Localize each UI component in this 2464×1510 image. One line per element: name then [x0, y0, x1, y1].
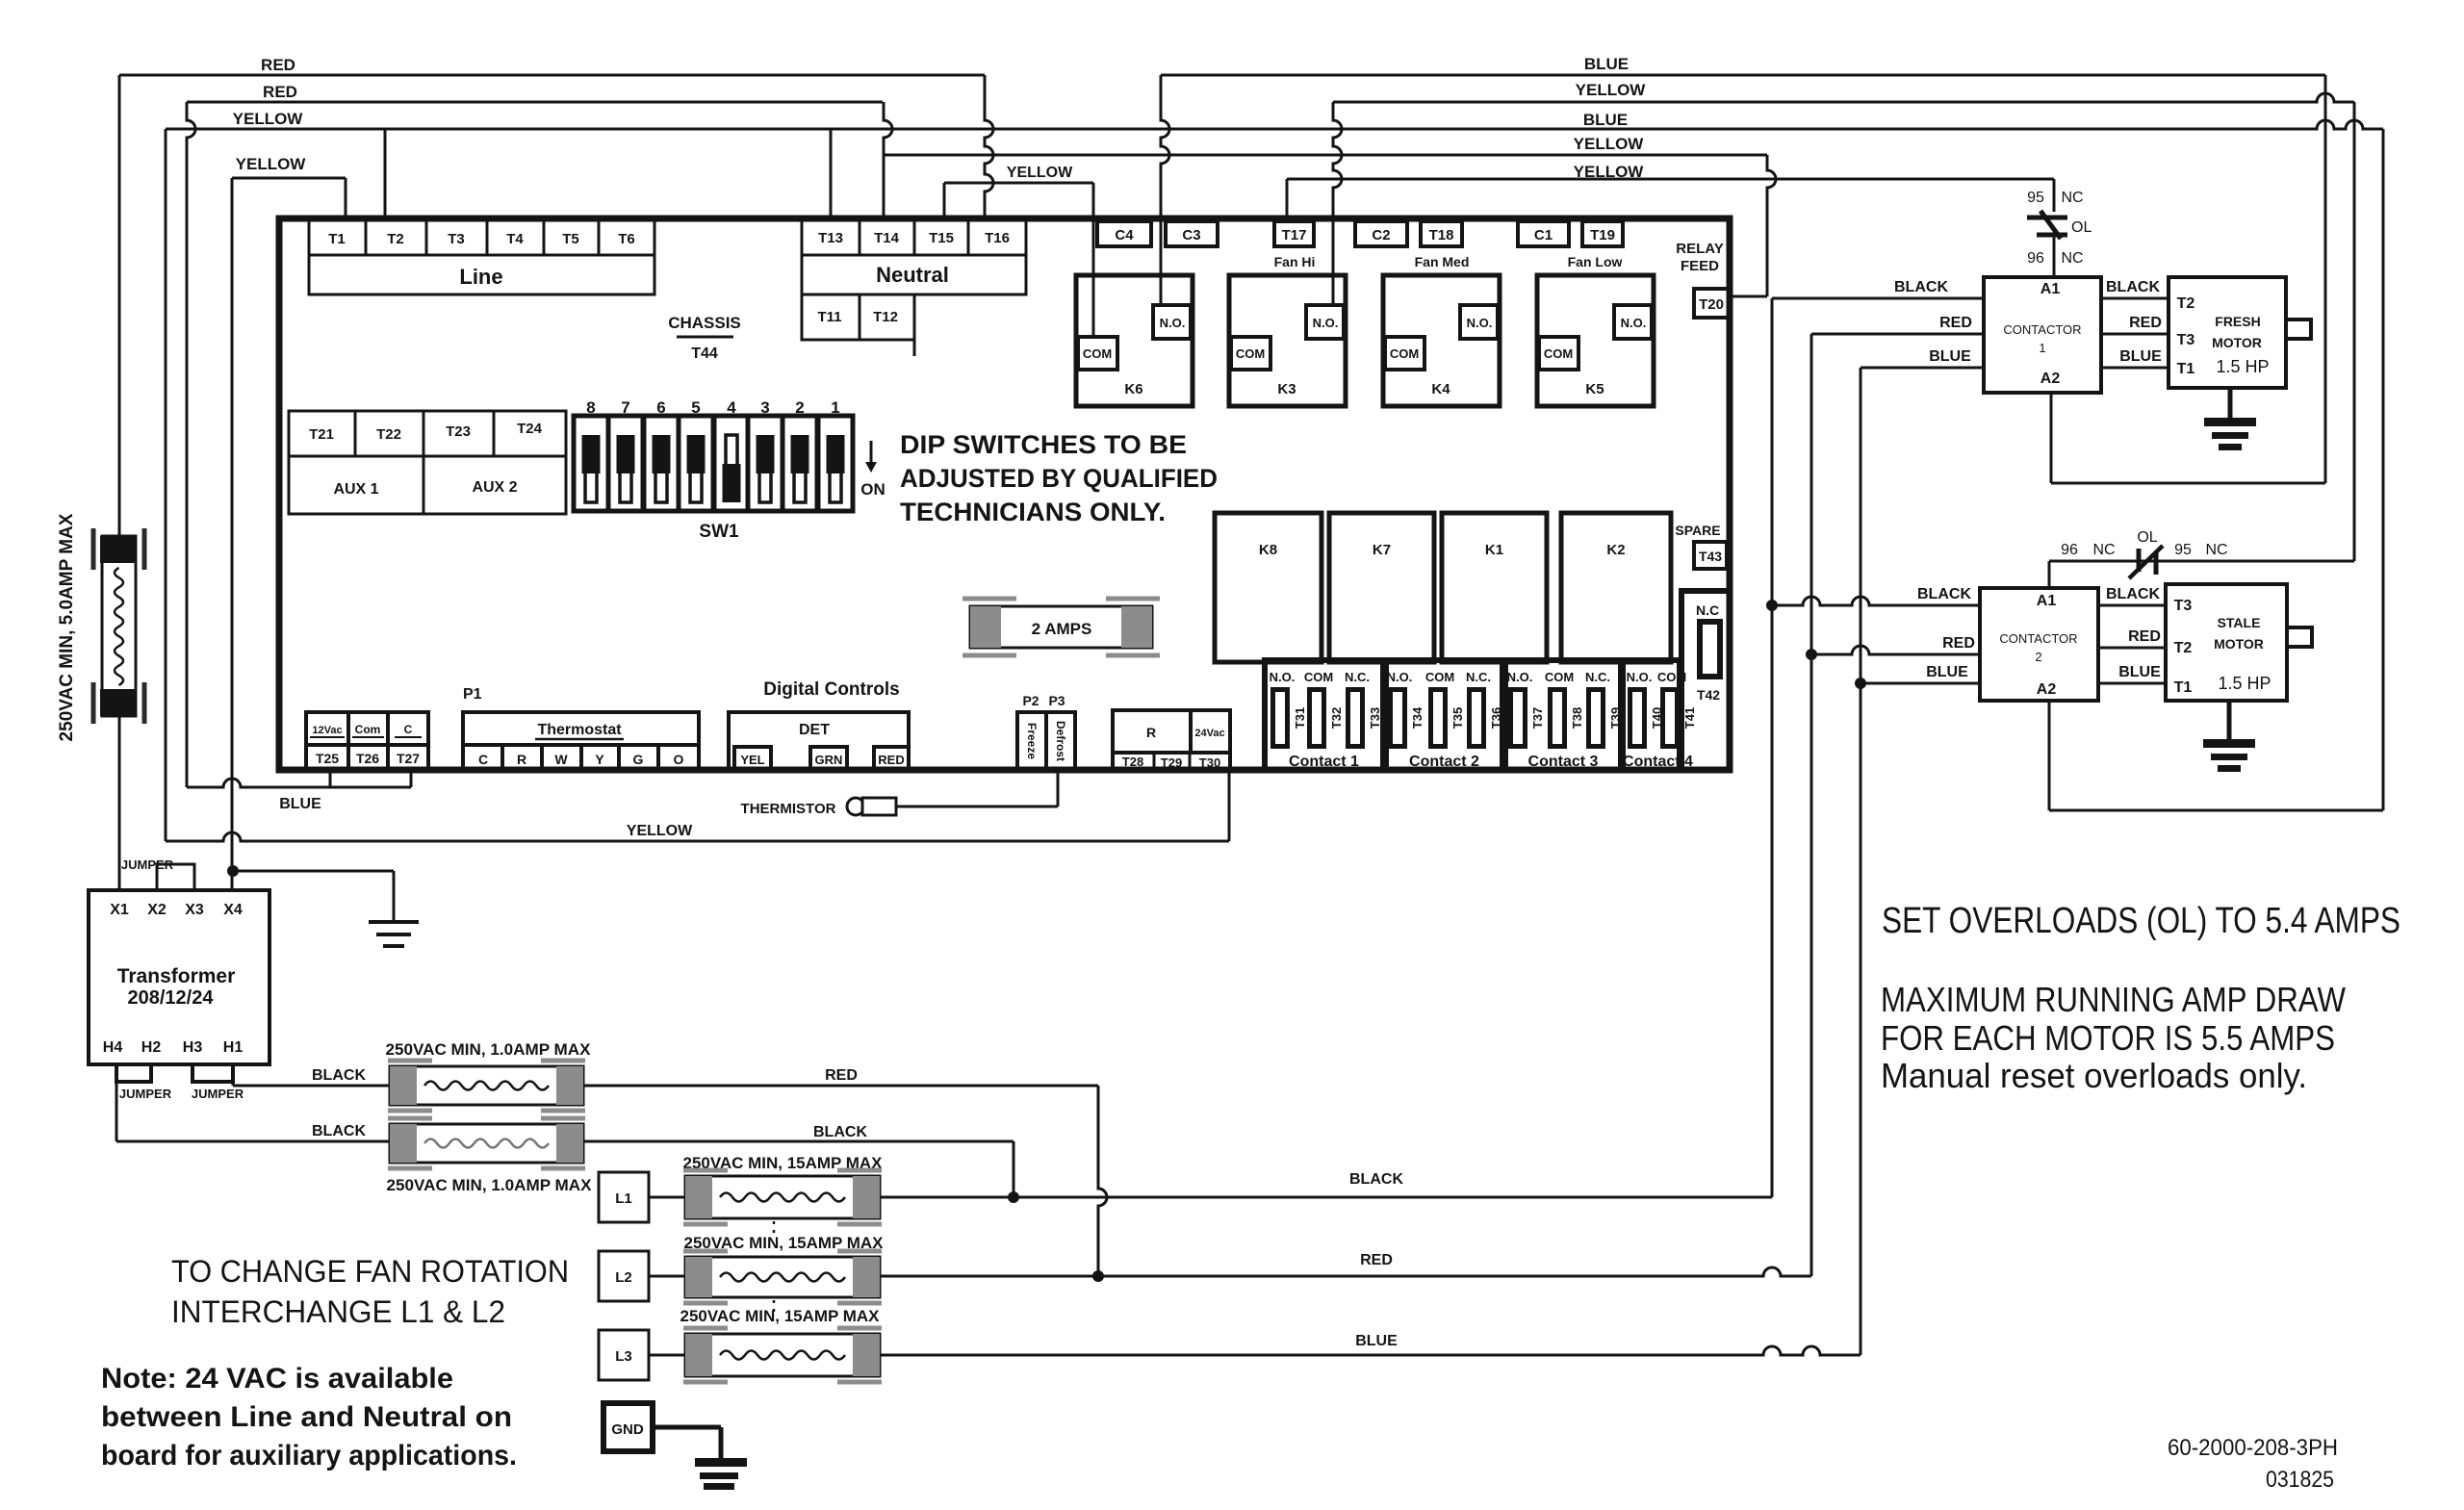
- fuse F4 250VAC MIN 1.0AMP MAX: [390, 1124, 583, 1163]
- svg-text:RED: RED: [263, 83, 297, 101]
- svg-text:T43: T43: [1699, 549, 1722, 564]
- wire VR3 BLUE right drop to contactor2 A2 return: [2382, 129, 2385, 810]
- svg-text:250VAC MIN, 1.0AMP MAX: 250VAC MIN, 1.0AMP MAX: [387, 1176, 593, 1194]
- svg-text:OL: OL: [2071, 219, 2092, 236]
- terminal YEL: [734, 747, 771, 770]
- terminal T17: [1274, 221, 1314, 246]
- svg-text:NC: NC: [2061, 190, 2083, 206]
- terminal C4: [1097, 221, 1151, 246]
- motor M1 FRESH MOTOR: [2169, 277, 2286, 388]
- wire RED contactor1 to motor T3: [2101, 333, 2169, 336]
- svg-text:K7: K7: [1373, 542, 1391, 558]
- svg-text:BLUE: BLUE: [1584, 55, 1629, 73]
- svg-text:COM: COM: [1304, 670, 1333, 684]
- wire RED fuse F3 out to L2 phase: [583, 1085, 1098, 1088]
- svg-text:RED: RED: [1942, 635, 1975, 652]
- svg-text:T33: T33: [1368, 707, 1382, 729]
- wire V1 left drop to transformer X1: [118, 75, 121, 890]
- svg-text:95: 95: [2174, 542, 2192, 558]
- svg-text:YELLOW: YELLOW: [233, 110, 304, 128]
- svg-text:L2: L2: [615, 1269, 632, 1286]
- wire RED to contactor1: [1811, 333, 1984, 336]
- svg-text:C: C: [404, 723, 413, 736]
- svg-text:A1: A1: [2040, 281, 2061, 297]
- svg-text:NC: NC: [2061, 250, 2083, 267]
- svg-text:TECHNICIANS ONLY.: TECHNICIANS ONLY.: [900, 498, 1166, 526]
- svg-text:N.C.: N.C.: [1466, 670, 1491, 684]
- svg-text:60-2000-208-3PH: 60-2000-208-3PH: [2168, 1435, 2338, 1461]
- svg-text:T44: T44: [691, 346, 718, 362]
- svg-text:N.O.: N.O.: [1270, 670, 1296, 684]
- svg-text:N.C.: N.C.: [1345, 670, 1370, 684]
- svg-text:X1: X1: [110, 902, 129, 918]
- terminal block Line T1-T6: [309, 220, 654, 294]
- svg-text:BLUE: BLUE: [2118, 664, 2161, 680]
- svg-text:BLACK: BLACK: [2106, 586, 2160, 602]
- svg-text:T11: T11: [817, 309, 841, 325]
- svg-text:L1: L1: [615, 1190, 632, 1207]
- svg-text:BLUE: BLUE: [279, 796, 321, 812]
- terminal T18: [1421, 221, 1462, 246]
- svg-text:Fan Low: Fan Low: [1568, 254, 1623, 269]
- svg-text:N.C: N.C: [1696, 602, 1719, 618]
- svg-text:K8: K8: [1259, 542, 1277, 558]
- svg-text:O: O: [674, 752, 684, 767]
- terminal block Neutral T13-T16: [802, 219, 1026, 294]
- svg-text:T14: T14: [874, 230, 900, 246]
- svg-text:T32: T32: [1329, 707, 1344, 729]
- jumper H3-H1: [192, 1064, 233, 1082]
- relay K5: [1537, 275, 1654, 406]
- control board outline: [279, 218, 1730, 770]
- svg-text:X4: X4: [223, 902, 243, 918]
- svg-text:MAXIMUM RUNNING AMP DRAW: MAXIMUM RUNNING AMP DRAW: [1881, 980, 2346, 1019]
- wire H1 BLUE segment: [1161, 74, 2325, 77]
- wires BLACK/RED/BLUE drop to contactor2: [1771, 298, 1774, 1197]
- svg-text:T16: T16: [985, 230, 1010, 246]
- wire V3 left drop to YELLOW T30 wire: [165, 129, 167, 841]
- svg-text:T25: T25: [316, 751, 339, 766]
- relay K2: [1561, 513, 1671, 662]
- svg-text:OL: OL: [2137, 529, 2157, 546]
- svg-text:BLACK: BLACK: [1894, 279, 1948, 295]
- terminal block T11 T12: [802, 294, 914, 340]
- jumper H4-H2: [116, 1064, 151, 1082]
- wire BLACK L1 phase: [880, 1196, 1772, 1199]
- ground wire from X4 line: [227, 865, 239, 877]
- svg-text:R: R: [1146, 725, 1156, 740]
- svg-text:BLUE: BLUE: [2119, 348, 2162, 365]
- svg-text:T24: T24: [517, 421, 543, 437]
- svg-text:K1: K1: [1485, 542, 1503, 558]
- svg-text:K2: K2: [1606, 542, 1625, 558]
- terminal L3: [599, 1330, 649, 1380]
- svg-text:Contact 3: Contact 3: [1528, 754, 1599, 770]
- svg-text:N.O.: N.O.: [1313, 316, 1339, 330]
- svg-text:CHASSIS: CHASSIS: [668, 314, 741, 332]
- svg-text:T31: T31: [1293, 707, 1307, 729]
- board notch wall horizontal: [1681, 588, 1730, 594]
- svg-text:T29: T29: [1161, 755, 1182, 770]
- contact group Contact 4: [1623, 660, 1680, 770]
- terminal block AUX T21-T24: [289, 411, 566, 514]
- svg-text:250VAC MIN, 5.0AMP MAX: 250VAC MIN, 5.0AMP MAX: [57, 513, 77, 741]
- svg-text:FRESH: FRESH: [2215, 314, 2260, 329]
- svg-text:T4: T4: [506, 231, 524, 247]
- wire YELLOW V3 to T30: [166, 832, 1229, 841]
- svg-text:T18: T18: [1429, 227, 1454, 243]
- terminal T20: [1694, 289, 1729, 318]
- svg-text:RELAY: RELAY: [1676, 241, 1723, 257]
- svg-text:T2: T2: [2177, 295, 2195, 312]
- ON arrow: [870, 441, 873, 464]
- svg-text:RED: RED: [1360, 1252, 1393, 1268]
- svg-text:YELLOW: YELLOW: [1574, 135, 1645, 153]
- svg-text:1: 1: [2039, 341, 2045, 355]
- svg-text:MOTOR: MOTOR: [2212, 335, 2262, 350]
- svg-text:P3: P3: [1048, 693, 1065, 708]
- motor M2 STALE MOTOR: [2166, 584, 2287, 701]
- svg-text:BLACK: BLACK: [1349, 1171, 1403, 1188]
- wire BLACK H4 to fuse F4: [115, 1082, 118, 1141]
- svg-text:Y: Y: [595, 752, 604, 767]
- contact group Contact 2: [1386, 660, 1502, 770]
- svg-text:N.O.: N.O.: [1627, 670, 1653, 684]
- svg-text:T27: T27: [397, 751, 420, 766]
- svg-text:X2: X2: [147, 902, 167, 918]
- wire thermistor to P3 Defrost: [896, 806, 1058, 808]
- wire BLACK fuse F4 out to L1 phase: [583, 1140, 1014, 1143]
- wire contactor2 A2 lead: [2048, 701, 2051, 810]
- node T44 chassis: [677, 336, 733, 339]
- relay K6: [1076, 275, 1193, 406]
- wire BLUE L3 phase: [880, 1346, 1861, 1355]
- wire drop H2 to K3 N.O.: [1333, 102, 1342, 305]
- motor M1 shaft flag: [2286, 320, 2311, 339]
- wire H4 corner down to T20: [1767, 155, 1776, 296]
- svg-text:BLUE: BLUE: [1355, 1333, 1398, 1349]
- wire drop H3 to T13: [830, 129, 833, 216]
- wire BLUE V2 to T25/T27: [187, 779, 411, 787]
- svg-text:SET OVERLOADS (OL) TO 5.4 AMPS: SET OVERLOADS (OL) TO 5.4 AMPS: [1882, 901, 2400, 941]
- svg-text:Neutral: Neutral: [876, 263, 949, 287]
- svg-text:ADJUSTED BY QUALIFIED: ADJUSTED BY QUALIFIED: [900, 464, 1218, 493]
- svg-text:T30: T30: [1199, 755, 1220, 770]
- svg-text:T1: T1: [2177, 361, 2195, 377]
- svg-text:K6: K6: [1124, 381, 1142, 397]
- board notch wall vertical: [1679, 588, 1684, 770]
- svg-text:2 AMPS: 2 AMPS: [1032, 620, 1092, 638]
- svg-text:T21: T21: [309, 426, 334, 443]
- wire H4 YELLOW to T20: [884, 154, 1767, 157]
- terminal T19: [1582, 221, 1623, 246]
- wire BLACK to contactor2 A1: [1772, 597, 1980, 605]
- svg-text:RED: RED: [2129, 315, 2162, 331]
- svg-text:L3: L3: [615, 1348, 632, 1365]
- wire V2 left drop to BLUE T25 wire: [187, 102, 195, 787]
- svg-text:DET: DET: [799, 722, 830, 738]
- dotted gang link F6-F7: [773, 1300, 776, 1317]
- svg-text:H2: H2: [141, 1039, 162, 1056]
- OL overload contactor2: [2048, 561, 2051, 588]
- wire H1 RED segment: [119, 74, 985, 77]
- svg-text:INTERCHANGE L1 & L2: INTERCHANGE L1 & L2: [171, 1294, 505, 1329]
- relay K7: [1329, 513, 1434, 662]
- svg-text:P1: P1: [463, 686, 482, 703]
- ground symbol (GND): [695, 1458, 747, 1467]
- svg-text:T2: T2: [2174, 640, 2193, 656]
- svg-text:24Vac: 24Vac: [1194, 728, 1224, 739]
- wire BLUE to contactor1: [1861, 367, 1984, 370]
- svg-text:R: R: [517, 752, 526, 767]
- contactor U2 CONTACTOR 2: [1980, 588, 2098, 701]
- svg-text:A1: A1: [2037, 593, 2057, 609]
- wire RED to contactor2: [1811, 646, 1980, 654]
- svg-text:96: 96: [2027, 250, 2044, 267]
- svg-text:2: 2: [2035, 650, 2041, 664]
- wire drop H3 to T2: [384, 129, 387, 216]
- svg-text:TO CHANGE FAN ROTATION: TO CHANGE FAN ROTATION: [171, 1254, 569, 1289]
- svg-text:Note: 24 VAC is available: Note: 24 VAC is available: [101, 1363, 453, 1395]
- svg-text:C2: C2: [1372, 227, 1390, 243]
- svg-text:T41: T41: [1682, 707, 1697, 729]
- svg-text:CONTACTOR: CONTACTOR: [1999, 631, 2077, 646]
- svg-text:T36: T36: [1489, 707, 1503, 729]
- svg-text:T12: T12: [873, 309, 898, 325]
- svg-text:Thermostat: Thermostat: [537, 722, 622, 738]
- wire drop H2 to T14: [884, 102, 892, 216]
- svg-text:Manual reset overloads only.: Manual reset overloads only.: [1881, 1056, 2307, 1095]
- ground (stale motor): [2227, 701, 2232, 743]
- svg-text:T35: T35: [1450, 707, 1465, 729]
- svg-text:YELLOW: YELLOW: [627, 823, 693, 839]
- relay K1: [1442, 513, 1547, 662]
- svg-text:P2: P2: [1022, 693, 1039, 708]
- wire GND to ground: [653, 1425, 721, 1430]
- svg-text:Defrost: Defrost: [1054, 721, 1067, 761]
- svg-text:RED: RED: [2128, 628, 2161, 645]
- svg-text:AUX 1: AUX 1: [333, 481, 378, 498]
- svg-text:T17: T17: [1282, 227, 1307, 243]
- terminal C1: [1518, 221, 1569, 246]
- wire drop H5 stub to T17: [1286, 179, 1289, 216]
- svg-text:COM: COM: [1657, 670, 1686, 684]
- wire YELLOW2 to T1: [232, 177, 346, 180]
- svg-text:Digital Controls: Digital Controls: [763, 679, 899, 700]
- fuse F2A 2 AMPS: [970, 606, 1152, 648]
- svg-text:BLACK: BLACK: [2106, 279, 2160, 295]
- svg-text:between Line and Neutral on: between Line and Neutral on: [101, 1401, 512, 1433]
- wire RED contactor2 to motor T2: [2098, 647, 2166, 650]
- svg-text:Contact 4: Contact 4: [1623, 754, 1693, 770]
- svg-text:W: W: [554, 752, 568, 767]
- svg-text:Fan Hi: Fan Hi: [1274, 254, 1316, 269]
- svg-text:T3: T3: [448, 231, 465, 247]
- svg-text:RED: RED: [825, 1067, 858, 1084]
- wire RED L2 phase: [880, 1267, 1811, 1276]
- svg-text:1.5 HP: 1.5 HP: [2218, 674, 2271, 693]
- svg-text:N.O.: N.O.: [1160, 316, 1186, 330]
- svg-text:BLUE: BLUE: [1929, 348, 1971, 365]
- svg-text:COM: COM: [1390, 346, 1419, 361]
- svg-text:RED: RED: [878, 753, 904, 767]
- svg-text:X3: X3: [185, 902, 204, 918]
- svg-text:C3: C3: [1182, 227, 1200, 243]
- svg-text:GRN: GRN: [815, 753, 843, 767]
- svg-text:AUX 2: AUX 2: [472, 479, 517, 496]
- contactor U1 CONTACTOR 1: [1984, 277, 2101, 393]
- terminal RED: [874, 747, 909, 770]
- svg-text:BLUE: BLUE: [1926, 664, 1968, 680]
- svg-text:031825: 031825: [2266, 1467, 2334, 1493]
- svg-text:T22: T22: [376, 426, 401, 443]
- svg-text:12Vac: 12Vac: [312, 725, 342, 736]
- terminal L2: [599, 1251, 649, 1301]
- svg-text:COM: COM: [1544, 346, 1573, 361]
- svg-text:T42: T42: [1697, 687, 1720, 703]
- svg-text:T1: T1: [2174, 679, 2193, 696]
- terminal block R 24Vac / T28 T29 T30: [1113, 710, 1230, 770]
- terminal block 12Vac Com C / T25 T26 T27: [306, 712, 428, 770]
- svg-text:JUMPER: JUMPER: [192, 1087, 244, 1101]
- svg-text:250VAC MIN, 15AMP MAX: 250VAC MIN, 15AMP MAX: [680, 1307, 881, 1325]
- svg-text:T15: T15: [929, 230, 954, 246]
- svg-text:T5: T5: [562, 231, 579, 247]
- svg-text:N.O.: N.O.: [1621, 316, 1647, 330]
- svg-text:Transformer: Transformer: [117, 965, 236, 987]
- svg-text:C: C: [478, 752, 488, 767]
- svg-text:N.C.: N.C.: [1585, 670, 1610, 684]
- svg-text:NC: NC: [2092, 542, 2115, 558]
- svg-text:Line: Line: [459, 265, 502, 289]
- svg-text:K5: K5: [1585, 381, 1604, 397]
- svg-text:NC: NC: [2205, 542, 2227, 558]
- svg-text:RED: RED: [1939, 315, 1972, 331]
- svg-text:Freeze: Freeze: [1025, 723, 1039, 759]
- wire contactor1 A2 lead: [2050, 393, 2053, 483]
- svg-text:C4: C4: [1115, 227, 1134, 243]
- svg-text:YEL: YEL: [740, 753, 764, 767]
- svg-text:T37: T37: [1530, 707, 1545, 729]
- svg-text:YELLOW: YELLOW: [236, 155, 307, 173]
- svg-text:T6: T6: [618, 231, 635, 247]
- dotted gang link F5-F6: [773, 1221, 776, 1238]
- relay K4: [1383, 275, 1500, 406]
- svg-text:T2: T2: [387, 231, 404, 247]
- transformer 208/12/24: [89, 890, 269, 1064]
- svg-text:FEED: FEED: [1681, 258, 1719, 274]
- terminal C2: [1355, 221, 1407, 246]
- svg-text:GND: GND: [611, 1421, 644, 1438]
- wire VR1 BLUE right drop to contactor1 A2 return: [2324, 75, 2327, 483]
- svg-text:T3: T3: [2177, 332, 2195, 348]
- svg-text:H3: H3: [183, 1039, 203, 1056]
- wire VR2 YELLOW right drop to OL2: [2353, 102, 2356, 561]
- svg-text:DIP SWITCHES TO BE: DIP SWITCHES TO BE: [900, 430, 1187, 459]
- wire BLUE contactor1 to motor T1: [2101, 367, 2169, 370]
- relay K8: [1215, 513, 1322, 662]
- svg-text:Contact 2: Contact 2: [1409, 754, 1479, 770]
- wire BLACK to contactor1 A1: [1772, 297, 1984, 300]
- contact group Contact 1: [1265, 660, 1383, 770]
- wire H3 YELLOW/BLUE bus: [166, 120, 2383, 129]
- svg-text:SW1: SW1: [699, 522, 739, 542]
- terminal C3: [1166, 221, 1218, 246]
- svg-text:1.5 HP: 1.5 HP: [2216, 357, 2269, 376]
- svg-text:T13: T13: [818, 230, 843, 246]
- svg-text:Fan Med: Fan Med: [1415, 254, 1470, 269]
- svg-text:N.O.: N.O.: [1387, 670, 1413, 684]
- svg-text:T38: T38: [1570, 707, 1584, 729]
- wire H2 RED segment: [187, 101, 883, 104]
- svg-text:K4: K4: [1431, 381, 1450, 397]
- svg-text:CONTACTOR: CONTACTOR: [2003, 322, 2081, 337]
- contact group Contact 3: [1505, 660, 1621, 770]
- svg-text:BLUE: BLUE: [1583, 111, 1628, 129]
- svg-text:T3: T3: [2174, 598, 2193, 614]
- terminal L1: [599, 1172, 649, 1222]
- svg-text:G: G: [633, 752, 644, 767]
- svg-text:THERMISTOR: THERMISTOR: [741, 801, 836, 817]
- svg-text:ON: ON: [860, 480, 885, 499]
- svg-text:T20: T20: [1699, 296, 1724, 313]
- svg-text:T26: T26: [356, 751, 379, 766]
- svg-text:N.O.: N.O.: [1507, 670, 1533, 684]
- wire YELLOW T15 to K6 COM: [944, 182, 1093, 185]
- wire BLACK contactor1 to motor T2: [2101, 297, 2169, 300]
- svg-text:H4: H4: [103, 1039, 123, 1056]
- wire V4 left drop to X4: [231, 178, 234, 890]
- svg-text:A2: A2: [2037, 681, 2057, 698]
- relay K3: [1229, 275, 1346, 406]
- wire H2 YELLOW segment: [1333, 93, 2354, 102]
- wire drop H1 to K6 N.O.: [1161, 75, 1169, 305]
- svg-text:T28: T28: [1122, 755, 1143, 769]
- svg-text:COM: COM: [1083, 346, 1112, 361]
- svg-text:BLACK: BLACK: [312, 1123, 366, 1139]
- svg-text:Contact 1: Contact 1: [1289, 754, 1359, 770]
- svg-text:95: 95: [2027, 190, 2044, 206]
- svg-text:96: 96: [2061, 542, 2078, 558]
- ground symbol (transformer): [369, 920, 419, 924]
- svg-text:COM: COM: [1545, 670, 1574, 684]
- svg-text:A2: A2: [2040, 371, 2061, 387]
- wire BLUE contactor2 to motor T1: [2098, 682, 2166, 685]
- wire H5 YELLOW T17 to OL1: [1287, 178, 2054, 181]
- svg-text:208/12/24: 208/12/24: [128, 987, 215, 1009]
- OL overload contactor1: [2053, 179, 2056, 212]
- svg-text:YELLOW: YELLOW: [1576, 81, 1647, 99]
- svg-text:N.O.: N.O.: [1467, 316, 1493, 330]
- svg-text:YELLOW: YELLOW: [1007, 165, 1073, 181]
- svg-text:RED: RED: [261, 56, 295, 74]
- wire BLACK contactor2 to motor T3: [2098, 604, 2166, 607]
- svg-text:FOR EACH MOTOR IS 5.5 AMPS: FOR EACH MOTOR IS 5.5 AMPS: [1881, 1018, 2335, 1058]
- svg-text:YELLOW: YELLOW: [1574, 163, 1645, 181]
- terminal GND: [603, 1403, 653, 1451]
- motor M2 shaft flag: [2287, 627, 2312, 647]
- svg-text:C1: C1: [1534, 227, 1553, 243]
- svg-text:250VAC MIN, 1.0AMP MAX: 250VAC MIN, 1.0AMP MAX: [386, 1040, 592, 1059]
- wire drop H1 to T16: [985, 75, 993, 216]
- svg-text:H1: H1: [223, 1039, 244, 1056]
- svg-text:K3: K3: [1277, 381, 1296, 397]
- svg-text:STALE: STALE: [2218, 615, 2261, 630]
- svg-text:Com: Com: [355, 723, 381, 736]
- svg-text:T34: T34: [1410, 706, 1424, 729]
- svg-text:board for auxiliary applicatio: board for auxiliary applications.: [101, 1440, 517, 1472]
- terminal GRN: [810, 747, 847, 770]
